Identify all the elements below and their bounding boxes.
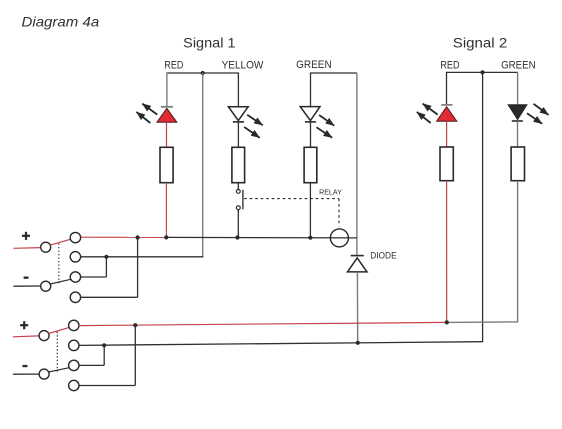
wire contact4 riser	[137, 238, 139, 298]
switch S1 contact 1	[70, 232, 80, 242]
wire LED D2 to resistor	[237, 122, 239, 147]
switch S2 contact 1	[69, 320, 79, 330]
svg-text:GREEN: GREEN	[296, 59, 332, 71]
node junction dot signal2 top bar	[480, 70, 484, 74]
wire main line to relay coil	[166, 236, 357, 239]
switch S1 minus label	[24, 277, 29, 279]
resistor R1 (signal1 red)	[160, 147, 173, 182]
switch S2 contact 2	[69, 340, 79, 350]
switch S2 contact 4	[69, 380, 79, 390]
switch S2 pole minus	[39, 369, 49, 379]
wire battery1 minus feed	[13, 285, 40, 287]
switch S2 pole plus	[39, 331, 49, 341]
diode D4 cathode bar	[351, 255, 364, 257]
relay dashed link vertical	[338, 199, 340, 227]
svg-text:Diagram 4a: Diagram 4a	[22, 13, 100, 29]
switch S2 minus label	[23, 365, 28, 367]
LED D2 emission arrows	[244, 115, 263, 138]
LED D5 emission arrows	[417, 104, 438, 123]
relay contact K1 lower terminal	[236, 206, 240, 210]
relay contact K1 blade	[242, 190, 244, 210]
wire joiner vertical	[105, 257, 107, 277]
wire red bus battery2	[79, 322, 447, 325]
relay coil K1	[330, 229, 348, 247]
node dot yellow branch joins main line	[235, 235, 239, 239]
wire signal1 right vertical (gray)	[356, 73, 358, 255]
LED D6 cathode bar	[512, 120, 523, 122]
svg-text:RED: RED	[440, 60, 459, 72]
resistor R5 (signal2 green)	[511, 147, 524, 181]
wire signal2 top bar	[447, 71, 518, 73]
wire LED D5 to resistor (red)	[446, 121, 448, 147]
wire resistor R1 to main line (red)	[165, 183, 167, 238]
LED D3 green triangle (signal1)	[300, 107, 320, 121]
wire relay contact to main line	[237, 210, 239, 238]
LED D1 cathode bar (red, signal1)	[161, 106, 173, 108]
LED D6 green triangle filled (signal2)	[509, 105, 527, 119]
wire contact3 battery2	[79, 364, 104, 366]
node dot signal2 red meets red bus	[445, 320, 449, 324]
wire LED D1 to resistor (red)	[166, 122, 168, 147]
svg-text:RELAY: RELAY	[319, 187, 342, 196]
switch S2 plus label	[20, 321, 28, 329]
wire diode to return bus (gray)	[356, 272, 358, 343]
wire battery2 plus feed (red)	[13, 335, 39, 338]
svg-text:YELLOW: YELLOW	[222, 60, 264, 72]
LED D1 emission arrows	[136, 104, 157, 123]
diode D4 triangle	[348, 258, 368, 272]
switch S2 plus blade (red)	[49, 327, 70, 333]
wire contact4 horizontal battery2	[79, 385, 136, 387]
LED D5 cathode bar (signal2 red)	[441, 104, 452, 106]
node junction dot signal1 top bar	[201, 71, 205, 75]
svg-text:Signal 1: Signal 1	[183, 35, 235, 50]
wire signal1 top bar red-yellow	[167, 72, 239, 74]
wire joiner vertical battery2	[103, 345, 105, 365]
wire signal1 green branch upper	[310, 72, 312, 106]
wire battery1 plus feed (red)	[13, 247, 40, 250]
svg-text:GREEN: GREEN	[501, 60, 535, 72]
node dot joiner battery2	[102, 343, 106, 347]
LED D5 red triangle (signal2)	[437, 107, 457, 122]
switch S1 minus blade	[50, 279, 70, 284]
switch S1 mechanical link (dotted)	[58, 244, 60, 284]
node dot contact4 riser joins red bus	[136, 235, 140, 239]
wire return bus battery2	[79, 342, 483, 346]
wire contact4 riser battery2	[134, 325, 136, 385]
wire contact3 to joiner	[81, 276, 107, 278]
svg-text:RED: RED	[164, 59, 183, 71]
wire resistor R2 to relay contact	[237, 183, 239, 190]
wire resistor R3 to main line	[309, 183, 311, 238]
LED D6 emission arrows	[527, 104, 549, 124]
node dot red branch joins main line	[164, 235, 168, 239]
wire main line red segment from switch	[81, 236, 166, 238]
wire signal2 green branch upper (gray)	[517, 72, 519, 105]
node dot diode return joins return bus	[356, 341, 360, 345]
wire signal2 red branch upper	[446, 72, 448, 104]
wire battery2 minus feed	[13, 373, 39, 375]
wire LED D3 to resistor	[310, 122, 312, 147]
relay contact K1 upper terminal	[236, 190, 240, 194]
resistor R3 (signal1 green)	[304, 147, 317, 182]
node dot contact2/3 joiner	[104, 255, 108, 259]
LED D1 red triangle (signal1)	[157, 108, 177, 122]
switch S1 contact 2	[70, 252, 80, 262]
LED D2 yellow triangle (signal1)	[228, 107, 248, 121]
switch S1 plus label	[22, 232, 30, 240]
switch S1 contact 4	[70, 292, 80, 302]
LED D3 emission arrows	[317, 115, 335, 138]
node dot green branch joins main line	[308, 236, 312, 240]
wire resistor R4 down to red bus (red)	[446, 181, 448, 323]
LED D2 cathode bar	[233, 121, 244, 123]
switch S1 pole minus	[41, 281, 51, 291]
wire signal1 yellow branch upper	[237, 72, 239, 107]
node dot contact4 riser joins red bus 2	[133, 323, 137, 327]
switch S2 mechanical link (dotted)	[56, 332, 58, 372]
switch S2 minus blade	[49, 368, 70, 372]
svg-text:DIODE: DIODE	[370, 251, 397, 261]
wire signal1 return vertical (gray)	[202, 73, 204, 257]
switch S1 plus blade (red)	[50, 239, 70, 245]
wire signal1 return horizontal to switch contact 2	[81, 256, 204, 258]
svg-text:Signal 2: Signal 2	[453, 36, 507, 51]
LED D3 cathode bar	[305, 121, 316, 123]
relay dashed link horizontal	[244, 198, 339, 200]
resistor R2 (signal1 yellow)	[232, 147, 245, 182]
switch S1 contact 3	[70, 272, 80, 282]
wire signal2 middle return vertical	[482, 72, 484, 342]
wire contact4 horizontal	[81, 296, 138, 298]
wire signal1 green top bar	[311, 72, 357, 74]
wire signal1 red branch upper (gray)	[166, 72, 168, 106]
resistor R4 (signal2 red)	[440, 147, 453, 181]
wire LED D6 to resistor (gray)	[517, 121, 519, 147]
switch S1 pole plus	[41, 242, 51, 252]
wire signal2 green bottom horizontal (gray)	[447, 321, 518, 324]
switch S2 contact 3	[69, 360, 79, 370]
wire resistor R5 down to corner (gray)	[517, 181, 519, 323]
